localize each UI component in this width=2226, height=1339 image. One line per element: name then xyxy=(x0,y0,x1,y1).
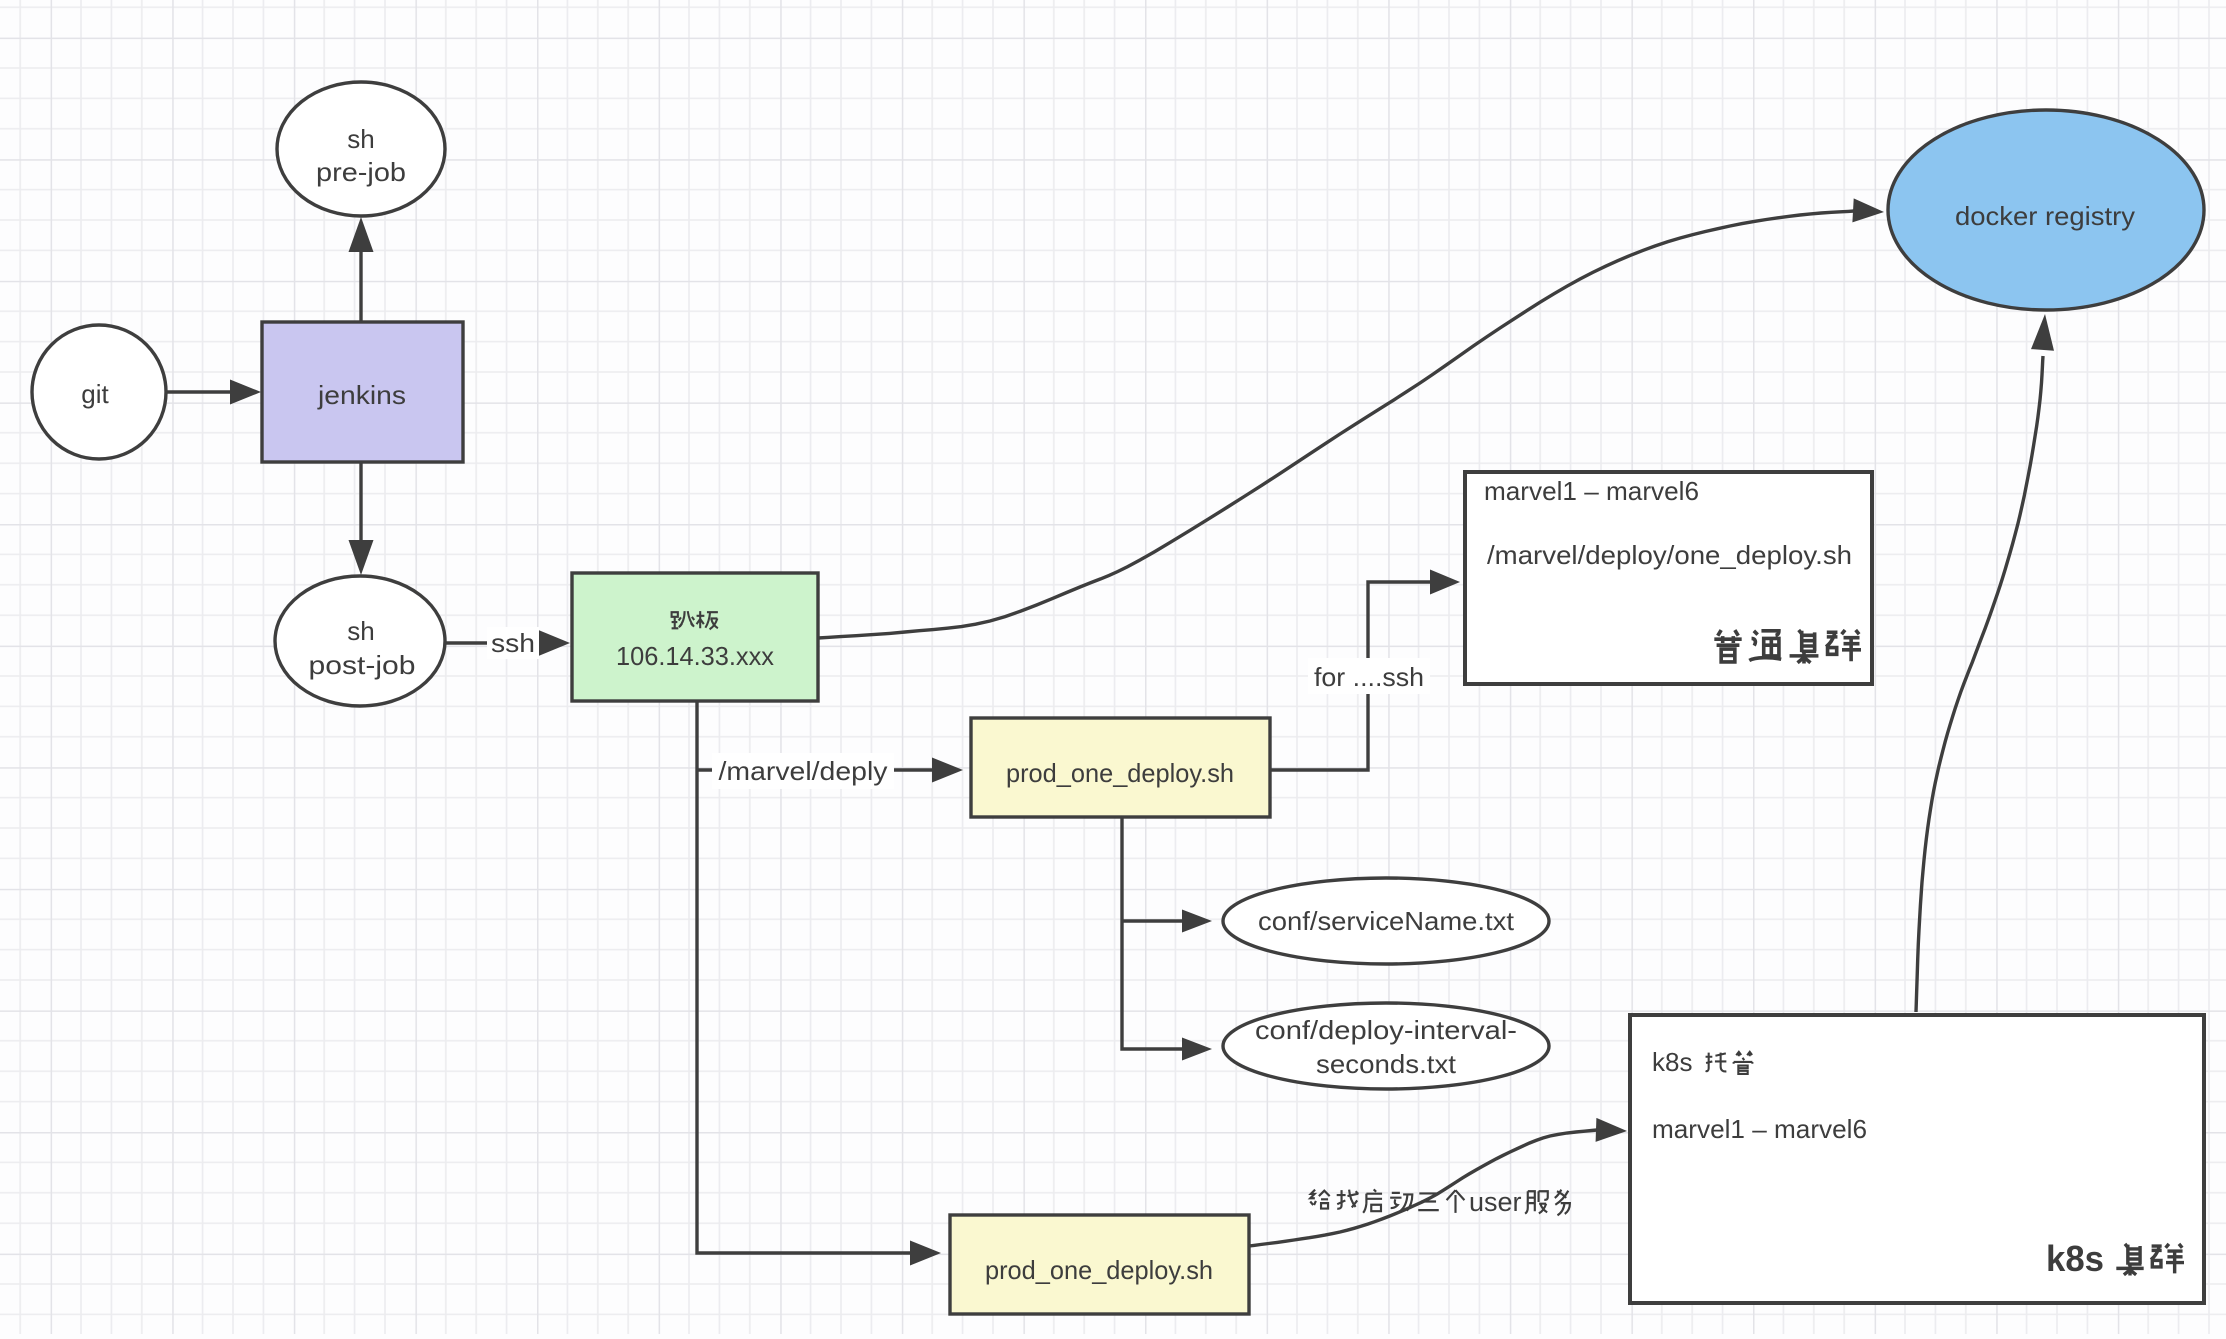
svg-text:git: git xyxy=(81,379,109,409)
svg-text:jenkins: jenkins xyxy=(317,380,406,410)
svg-text:marvel1 – marvel6: marvel1 – marvel6 xyxy=(1484,476,1699,506)
node sh post-job (ellipse) xyxy=(275,576,445,706)
wire prod_one_deploy.sh to putong cluster (for ssh) xyxy=(1270,582,1432,770)
svg-text:conf/deploy-interval-: conf/deploy-interval- xyxy=(1255,1015,1517,1045)
wire jenkins to sh post-job xyxy=(359,463,362,545)
wire branch to prod_one_deploy.sh (top) xyxy=(697,768,935,771)
wire tiaoban to docker registry (curve) xyxy=(818,211,1854,638)
node prod_one_deploy.sh top (rect) xyxy=(971,718,1270,817)
svg-text:ssh: ssh xyxy=(491,628,535,658)
svg-text:conf/serviceName.txt: conf/serviceName.txt xyxy=(1258,906,1515,936)
wire sh post-job to tiaoban xyxy=(446,641,537,644)
node prod_one_deploy.sh bottom (rect) xyxy=(950,1215,1249,1314)
svg-text:prod_one_deploy.sh: prod_one_deploy.sh xyxy=(985,1255,1213,1285)
svg-text:k8s: k8s xyxy=(1652,1047,1692,1077)
label putong jiqun (bold CJK) xyxy=(1714,630,1741,662)
svg-text:for ....ssh: for ....ssh xyxy=(1314,662,1424,692)
svg-text:106.14.33.xxx: 106.14.33.xxx xyxy=(616,641,774,671)
svg-text:pre-job: pre-job xyxy=(316,157,406,187)
svg-text:sh: sh xyxy=(347,616,374,646)
svg-text:marvel1 – marvel6: marvel1 – marvel6 xyxy=(1652,1114,1867,1144)
svg-text:k8s: k8s xyxy=(2046,1238,2104,1279)
svg-text:/marvel/deploy/one_deploy.sh: /marvel/deploy/one_deploy.sh xyxy=(1487,540,1852,570)
svg-text:user: user xyxy=(1469,1187,1522,1217)
node jenkins (rect) xyxy=(262,322,463,462)
svg-text:/marvel/deply: /marvel/deply xyxy=(719,756,888,786)
node conf/serviceName.txt (ellipse) xyxy=(1223,878,1549,964)
node tiaoban 106.14.33.xxx (rect) xyxy=(572,573,818,701)
svg-text:docker registry: docker registry xyxy=(1955,201,2135,231)
node k8s cluster box (rect) xyxy=(1630,1015,2204,1303)
node putong cluster box (rect) xyxy=(1465,472,1872,684)
svg-text:sh: sh xyxy=(347,124,374,154)
svg-text:prod_one_deploy.sh: prod_one_deploy.sh xyxy=(1006,758,1234,788)
node sh pre-job (ellipse) xyxy=(277,82,445,216)
wire git to jenkins xyxy=(166,390,234,393)
label gei wo qidong san ge user fuwu xyxy=(1310,1190,1329,1209)
svg-text:post-job: post-job xyxy=(309,650,416,680)
wire branch to conf/serviceName.txt xyxy=(1122,919,1184,922)
node docker registry (ellipse) xyxy=(1888,110,2204,310)
label ssh xyxy=(487,627,539,659)
wire tiaoban down to /marvel/deply branch xyxy=(697,701,913,1253)
label for ....ssh xyxy=(1308,658,1430,694)
wire k8s box to docker registry (curve) xyxy=(1916,356,2043,1012)
label /marvel/deply xyxy=(712,753,894,789)
node git (circle) xyxy=(32,325,166,459)
svg-text:seconds.txt: seconds.txt xyxy=(1316,1049,1457,1079)
wire prod_one_deploy.sh down to conf files xyxy=(1122,817,1184,1049)
wire jenkins to sh pre-job xyxy=(359,249,362,322)
node conf/deploy-interval-seconds.txt (ellipse) xyxy=(1223,1003,1549,1089)
wire bottom prod_one_deploy.sh to k8s box (curve) xyxy=(1249,1130,1597,1246)
